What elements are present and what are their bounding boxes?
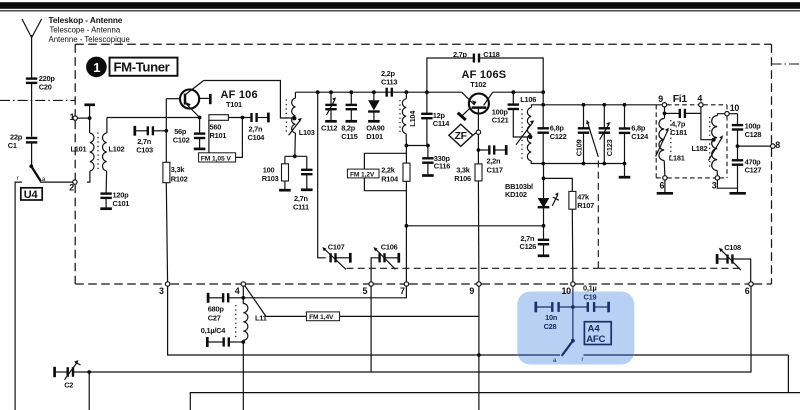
svg-text:Antenne - Telescopique: Antenne - Telescopique (49, 35, 130, 44)
svg-text:KD102: KD102 (505, 190, 527, 199)
svg-text:2: 2 (69, 182, 74, 192)
chassis chain line left (0, 99, 76, 101)
junction collector/C118 drop (541, 90, 545, 94)
ZF injection diamond (449, 124, 476, 146)
junction C124 top (623, 103, 627, 107)
switch bus right segment (634, 354, 788, 356)
terminal 3 (module underside) (159, 282, 170, 296)
wire to terminal 8 (738, 145, 771, 147)
resistor R104 with loop (381, 146, 410, 285)
junction rail/C107-drop (316, 90, 320, 94)
svg-text:2,2n: 2,2n (487, 157, 502, 166)
terminal 10 drop to AFC junction (572, 286, 574, 307)
svg-text:L103: L103 (299, 128, 315, 137)
inductor L11 (243, 298, 266, 342)
svg-text:C128: C128 (745, 130, 762, 139)
svg-text:9: 9 (469, 286, 474, 296)
svg-text:5: 5 (363, 286, 368, 296)
inductor L182 (variable) (692, 114, 725, 176)
svg-text:C121: C121 (492, 115, 509, 124)
trimmer capacitor C107 (318, 92, 351, 269)
junction rail/C115 (349, 90, 353, 94)
svg-text:Fi1: Fi1 (673, 94, 688, 105)
svg-text:C107: C107 (328, 242, 345, 251)
junction rail/C112 (329, 90, 333, 94)
svg-text:1: 1 (93, 60, 100, 75)
junction C114/C116 (426, 144, 430, 148)
AFC switch a/r (553, 307, 585, 364)
measuring point FM 1,4V with link (245, 286, 479, 322)
junction C124 bottom (623, 162, 627, 166)
RF top rail (295, 91, 461, 93)
svg-text:ZF: ZF (455, 131, 467, 142)
capacitor C111 (293, 156, 313, 211)
junction C128/C127/term8 (736, 144, 740, 148)
Fi1 terminal 6 ground stub (657, 180, 673, 193)
svg-text:6: 6 (745, 286, 750, 296)
svg-text:T102: T102 (470, 80, 486, 89)
capacitor C127 (730, 146, 762, 193)
svg-text:C1: C1 (8, 141, 17, 150)
svg-text:2,7p: 2,7p (453, 50, 468, 59)
terminal 8 (771, 140, 781, 150)
AFC highlight region (517, 292, 634, 365)
test-point T bar above node 1 (84, 105, 95, 118)
variable capacitor C109 (574, 105, 598, 164)
varicap branch junction (542, 177, 546, 181)
inductor L181 (variable) (656, 107, 685, 176)
r contact stub to U4 line (15, 182, 22, 410)
svg-text:C111: C111 (293, 202, 309, 211)
AFC designation box A4 AFC (584, 322, 611, 345)
junction term9 line/switch bus (477, 353, 481, 357)
svg-text:L101: L101 (71, 145, 87, 154)
T102 collector wire to osc tank (493, 91, 543, 93)
svg-text:C103: C103 (136, 145, 153, 154)
svg-text:C20: C20 (39, 82, 52, 91)
junction rail/D101 (372, 90, 376, 94)
switch r/a at antenna (17, 164, 46, 182)
terminal 4 drop to L182 tap (701, 107, 714, 140)
capacitor C116 (422, 146, 450, 176)
svg-text:U4: U4 (24, 189, 39, 201)
svg-text:C112: C112 (321, 124, 337, 133)
junction AFC wire at R104 line (405, 224, 409, 228)
fork wires to R103 and C111 (285, 155, 307, 157)
rail L104/C114 bottom (406, 145, 428, 147)
svg-text:4: 4 (235, 286, 240, 296)
svg-text:10: 10 (562, 286, 572, 296)
ZF arrow at T102 (458, 108, 471, 120)
measuring point FM1,05V (199, 118, 243, 163)
switch bus contact gap segments (517, 354, 634, 356)
junction C2/bus (87, 370, 91, 374)
chassis chain line top right (772, 63, 800, 65)
transistor T102 AF106S (462, 69, 507, 113)
node junction at L101 top (88, 116, 92, 120)
svg-text:C116: C116 (434, 161, 450, 170)
measuring point FM1,2V loop (347, 153, 406, 190)
inductor L102 (102, 118, 124, 194)
svg-text:C181: C181 (670, 128, 687, 137)
terminal 9 (underside) (469, 282, 481, 296)
svg-text:C117: C117 (487, 166, 503, 175)
svg-text:L181: L181 (669, 154, 685, 163)
svg-text:C123: C123 (605, 139, 614, 156)
core line L181 (670, 120, 672, 159)
svg-text:FM 1,2V: FM 1,2V (350, 171, 375, 178)
capacitor C122 line (C118 drop continues) (538, 92, 567, 163)
svg-text:R103: R103 (262, 174, 279, 183)
inductor L101 (71, 118, 95, 182)
inductor L103 (variable) (289, 92, 315, 156)
bandfilter Fi1 dashed frame (656, 105, 727, 178)
svg-text:C27: C27 (208, 314, 221, 323)
diode D101 OA90 (366, 92, 384, 141)
svg-text:a: a (553, 357, 557, 364)
capacitor C124 (619, 105, 649, 177)
svg-text:L182: L182 (692, 144, 708, 153)
wire terminal 10 to C128 (729, 113, 737, 115)
svg-text:C126: C126 (520, 242, 537, 251)
varicap diode BB103bl KD102 (505, 164, 559, 226)
C2 drop to bottom (88, 372, 90, 410)
capacitor C27 (208, 293, 244, 323)
numbered marker 1 (86, 57, 107, 78)
svg-text:C127: C127 (745, 166, 762, 175)
capacitor C102 (173, 118, 206, 149)
FM-Tuner title box (110, 58, 178, 76)
capacitor C4 (201, 326, 244, 347)
svg-text:3,3k: 3,3k (171, 165, 186, 174)
osc tank bottom rail (543, 163, 624, 165)
terminal 1 (70, 112, 78, 122)
junction tank bottom/C122 (541, 162, 545, 166)
svg-text:T101: T101 (226, 100, 242, 109)
trimmer capacitor C106 (371, 242, 399, 284)
Fi1 terminal 4 (697, 93, 703, 107)
svg-text:Telescope - Antenna: Telescope - Antenna (50, 26, 121, 35)
capacitor C28 (536, 302, 573, 331)
Fi1 terminal 3 to ground stub (717, 180, 737, 188)
svg-text:C102: C102 (173, 135, 190, 144)
svg-text:C108: C108 (724, 243, 741, 252)
svg-text:9: 9 (658, 94, 663, 104)
svg-text:D101: D101 (366, 132, 383, 141)
junction rail/L104 (405, 90, 409, 94)
junction term4/C27/L11 (241, 296, 245, 300)
capacitor C117 (478, 145, 506, 175)
L11 line continues to bottom (242, 342, 244, 410)
terminal 2 (69, 180, 77, 192)
svg-text:L102: L102 (109, 145, 125, 154)
svg-text:C106: C106 (381, 242, 398, 251)
svg-text:3,3k: 3,3k (456, 165, 471, 174)
capacitor C101 (100, 190, 129, 208)
lower bus with corner (190, 393, 800, 410)
junction base/C117/R106 (477, 148, 481, 152)
T102 base line with test node (476, 108, 480, 164)
junction R101/C104 (241, 116, 245, 120)
terminal 9 drop (478, 286, 480, 410)
junction collector/C121 (511, 90, 515, 94)
switch bus right end drop (787, 355, 789, 393)
capacitor C113 (381, 69, 397, 97)
capacitor C1 (in antenna lead) (8, 133, 38, 167)
svg-text:R107: R107 (577, 201, 594, 210)
svg-text:L106: L106 (520, 95, 536, 104)
junction C28/C19/switch (571, 305, 575, 309)
terminal 5 (363, 282, 374, 296)
svg-text:C122: C122 (550, 132, 567, 141)
capacitor C128 (732, 114, 762, 146)
svg-text:4: 4 (697, 93, 702, 103)
variable capacitor C2 (55, 360, 90, 389)
svg-text:FM-Tuner: FM-Tuner (114, 60, 170, 75)
inductor L106 (variable, tapped) (516, 95, 543, 164)
svg-text:R106: R106 (454, 174, 471, 183)
inductor L104 (402, 92, 417, 145)
capacitor C115 (341, 92, 357, 141)
terminal 6 (underside) (745, 282, 753, 296)
tuning voltage bus (C2 to terminal 6) (89, 286, 751, 372)
junction L181/C181 (663, 112, 667, 116)
svg-text:L104: L104 (408, 110, 417, 127)
wire R101 to C104 junction (228, 117, 251, 119)
svg-text:AFC: AFC (586, 334, 605, 345)
transistor T101 AF106 (166, 81, 257, 118)
terminal 5 drop to tuning bus (370, 286, 372, 372)
junction C123 bottom (602, 162, 606, 166)
collector wire T101 to L103 tap (204, 81, 295, 119)
Fi1 terminal 9 (658, 94, 667, 107)
junction rail/C114+C118 (425, 90, 429, 94)
node C103/base (164, 129, 168, 133)
junction varicap/C126 (542, 224, 546, 228)
core line L101/L102 (97, 133, 99, 172)
resistor R107 (544, 178, 595, 284)
wire term4 junction to terminal 7 (243, 286, 406, 298)
capacitor C118 branch (427, 50, 543, 92)
svg-text:3: 3 (159, 286, 164, 296)
svg-text:FM 1,05 V: FM 1,05 V (201, 155, 232, 162)
svg-text:0,1µ/C4: 0,1µ/C4 (201, 326, 226, 335)
resistor R106 (454, 164, 482, 284)
terminal 3 drop to bus (168, 286, 518, 355)
terminal 4 junction wire (242, 286, 244, 298)
top border bar (0, 2, 800, 9)
AFC wire to varicap (406, 225, 543, 227)
svg-text:0,1µ: 0,1µ (583, 284, 597, 293)
core line L104 (399, 100, 401, 133)
svg-text:C101: C101 (113, 199, 130, 208)
junction C123 top (602, 103, 606, 107)
junction tank top/C122 (541, 103, 545, 107)
capacitor C181 (665, 109, 701, 137)
terminal 7 (400, 282, 409, 296)
core line L11 (235, 305, 237, 339)
emitter node junction (198, 116, 202, 120)
wire L102 top rail to emitter junction (107, 117, 200, 119)
trimmer capacitor C108 (717, 243, 751, 282)
variable capacitor C123 (599, 105, 614, 164)
antenna label text (49, 15, 130, 44)
svg-text:FM 1,4V: FM 1,4V (309, 314, 334, 321)
svg-text:C109: C109 (574, 139, 583, 156)
svg-text:r: r (17, 175, 20, 182)
FM tuner module dashed outline (75, 44, 771, 284)
svg-text:R101: R101 (210, 131, 227, 140)
svg-text:C28: C28 (544, 322, 557, 331)
svg-text:6: 6 (660, 181, 665, 191)
core line L106 (521, 109, 523, 160)
capacitor C19 (573, 302, 609, 313)
terminal 4 (235, 282, 246, 296)
terminal 10 (underside) (562, 282, 576, 296)
svg-text:C19: C19 (584, 293, 597, 302)
tap junction on L103 (292, 116, 296, 120)
svg-text:C113: C113 (381, 77, 397, 86)
svg-text:8: 8 (775, 140, 780, 150)
svg-text:3: 3 (712, 181, 717, 191)
svg-text:C104: C104 (248, 133, 266, 142)
svg-text:7: 7 (400, 286, 405, 296)
core line L182 (709, 117, 711, 169)
svg-text:1: 1 (70, 112, 75, 122)
junction L104 bottom (405, 144, 409, 148)
resistor R102 (163, 162, 188, 284)
capacitor C103 (135, 126, 167, 154)
junction L103 bottom (293, 154, 297, 158)
svg-text:C118: C118 (483, 50, 499, 59)
capacitor C126 (520, 226, 550, 256)
Fi1 terminal 6 (660, 176, 668, 191)
svg-text:C114: C114 (433, 119, 450, 128)
trimmer capacitor C112 (321, 92, 337, 133)
svg-text:C2: C2 (64, 380, 73, 389)
junction C109 bottom (582, 162, 586, 166)
ganged tuning dashed link (347, 160, 741, 268)
Fi1 terminal 3 (712, 176, 720, 191)
wire switch a to terminal 2 (40, 181, 73, 183)
svg-text:Teleskop - Antenne: Teleskop - Antenne (49, 15, 123, 25)
antenna symbol (22, 19, 42, 78)
capacitor C114 (421, 92, 450, 145)
top thin rule (0, 10, 800, 12)
capacitor C20 (in antenna lead) (26, 74, 55, 137)
resistor R101 (209, 115, 229, 140)
svg-text:680p: 680p (208, 305, 225, 314)
tap junction L182 (712, 138, 716, 142)
svg-text:C124: C124 (631, 132, 649, 141)
junction C109 top (582, 103, 586, 107)
svg-text:R102: R102 (171, 174, 188, 183)
svg-text:10: 10 (730, 103, 740, 113)
svg-text:2,2k: 2,2k (381, 166, 396, 175)
resistor R103 (262, 156, 291, 190)
base drop wire T101 (165, 99, 167, 163)
capacitor C104 (248, 113, 269, 142)
capacitor C121 (492, 92, 530, 137)
svg-text:R104: R104 (381, 175, 399, 184)
U4 box (21, 188, 42, 201)
oscillator tank top rail (543, 104, 662, 106)
svg-text:A4: A4 (588, 324, 601, 335)
core line L103 (285, 100, 287, 134)
svg-text:C115: C115 (341, 132, 357, 141)
junction L11/C4 (241, 340, 245, 344)
wire node1 to L101 (77, 117, 89, 119)
Fi1 terminal 10 (725, 103, 740, 116)
